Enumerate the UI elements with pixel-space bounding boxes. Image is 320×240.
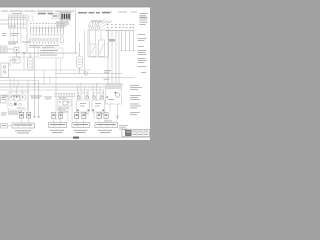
node text rows lower-left (1, 113, 7, 116)
switch S1 inner box (90, 44, 96, 57)
door module A2 box (92, 95, 105, 112)
wire K1 fan (90, 19, 112, 29)
node top-label-row (1, 11, 137, 13)
wire E3 to X6 (8, 125, 13, 127)
connector X1 small box (52, 14, 59, 19)
relay K7 small box b (59, 113, 63, 119)
wire F1 down a (9, 28, 11, 41)
node junction J1 (23, 52, 25, 54)
wire fusebox-down (26, 28, 28, 53)
door module A3 box (106, 89, 122, 105)
lamp H3 circle (19, 103, 22, 106)
switch S7 cell c (21, 95, 26, 100)
node braid hatch (106, 84, 124, 88)
lamp H2 circle (10, 103, 13, 106)
wire h73 (55, 73, 122, 75)
relay K10 small box a (97, 113, 101, 119)
relay K8 small box a (75, 113, 79, 119)
wire X8 stubs (77, 119, 84, 123)
wire v44 upper (43, 44, 45, 53)
wire v34 upper (33, 44, 35, 53)
wire v84 (84, 30, 86, 74)
node F1 label (12, 12, 22, 15)
node A3 stub labels (30, 23, 65, 24)
node 30-51 label (109, 39, 115, 42)
wire h80 (0, 79, 39, 81)
connector X7 wide box (49, 123, 67, 128)
connector X10 stub box (29, 16, 34, 21)
wire K3 drops (56, 97, 72, 121)
wire h57 (9, 56, 39, 58)
wire A1 feeds (78, 84, 89, 119)
connector X9 wide box (95, 123, 118, 128)
wire S3 down (16, 53, 18, 58)
ground G3 (38, 116, 40, 117)
node module wire labels (77, 93, 105, 115)
fuse F3 capsule (28, 53, 34, 70)
node F2 labels (29, 45, 59, 51)
node bottom marker (73, 137, 79, 139)
wire h70 (9, 69, 91, 71)
node table under X2 (56, 22, 69, 27)
fuse box F1 (9, 15, 28, 28)
fuse row F2 symbols (30, 38, 58, 42)
relay K1 coil circles (88, 22, 99, 29)
relay K5 small box b (27, 113, 31, 119)
node K3 caption (57, 108, 69, 113)
ground G1 (116, 116, 119, 119)
switch S6 cell b (15, 95, 20, 101)
terminal strip X5 (54, 94, 75, 97)
wire v60 (60, 58, 62, 74)
relay K1 box (88, 30, 109, 57)
wire E1 to S3 (7, 48, 14, 50)
node left labels mid (8, 42, 30, 45)
node K2 caption (8, 112, 22, 115)
wire v38 (38, 80, 40, 117)
wire bus y87 (0, 86, 122, 88)
wire h77 (0, 76, 135, 78)
node bus junction dots (11, 84, 109, 88)
wire bus A3b (30, 34, 64, 36)
wire left verticals to buses (10, 58, 56, 94)
wire X7 stubs (54, 119, 61, 123)
node mid-right wire labels (104, 70, 112, 80)
connector X4 diamond (84, 71, 88, 75)
node S4 contact dot (14, 59, 15, 60)
node F2 dark dots (30, 43, 58, 44)
relay K6 small box a (52, 113, 56, 119)
wire bus y90 (0, 89, 104, 91)
node margin notes lower right (130, 85, 142, 115)
node left text row y95 (2, 96, 52, 100)
connector X3 drop row (31, 28, 64, 35)
fuse F4 capsule center (77, 42, 83, 74)
node small text left (2, 33, 7, 36)
node A7 drop ends (120, 50, 134, 52)
node group box center (38, 48, 63, 58)
wire fusebox-left-2 (0, 23, 9, 25)
lamp H1 box (1, 63, 9, 78)
node header ST31 (38, 13, 53, 15)
node X3 terminal blobs (30, 30, 64, 31)
node margin notes right (138, 34, 147, 73)
connector X8 wide box (72, 123, 90, 128)
node label box E3 (1, 124, 8, 129)
node legend table right (140, 13, 148, 25)
node X9 caption (98, 130, 112, 133)
ground G2 (34, 116, 36, 117)
switch S3 box (14, 48, 19, 53)
node F1 terminals (9, 26, 16, 28)
wire center drop (75, 10, 77, 53)
wire v34 (33, 53, 35, 117)
node text under module A3 (104, 120, 112, 123)
node X6 caption (15, 130, 31, 133)
node A7 labels (107, 24, 134, 28)
wire F1 down c (17, 28, 19, 44)
node K2 inner text (17, 107, 25, 110)
node X7 caption (50, 130, 64, 133)
switch S2 inner box (99, 40, 105, 57)
wire K4 K5 stubs (22, 110, 29, 123)
wire A7 short drops (122, 31, 134, 51)
relay K11 small box b (104, 113, 108, 119)
wire A3 up stubs (31, 25, 64, 28)
node F1 inner marks (9, 17, 25, 18)
wire fusebox-left-1 (0, 19, 9, 21)
connector X2 dark box (60, 13, 71, 21)
switch S5 cell a (9, 95, 14, 100)
node K2 dark pad (14, 103, 17, 106)
node title block (122, 130, 150, 137)
wire bus A7 (106, 30, 135, 32)
fuse F5 capsule small (60, 37, 63, 44)
wire A3 down (110, 104, 118, 120)
wire main bus y53 (0, 52, 78, 54)
node label box E1 (1, 46, 8, 52)
node X8 caption (74, 130, 88, 133)
relay K3 box (58, 98, 72, 107)
wire bus A3 (30, 27, 64, 29)
wire F1 down d (20, 28, 22, 44)
wire F1 down b (13, 28, 15, 44)
node label box E2 (1, 95, 7, 103)
node header BR140 (78, 12, 110, 13)
relay K2 box (8, 92, 28, 110)
wire X9 stubs (99, 119, 106, 123)
connector X6 wide box (12, 123, 35, 128)
relay K9 small box b (82, 113, 86, 119)
node text above title block (119, 125, 128, 129)
wire K2 feeds (11, 87, 29, 110)
switch S4 cluster (10, 57, 20, 66)
node F1 under-text (11, 33, 20, 36)
wire A7 long drops (108, 31, 119, 85)
wire v24 (23, 53, 25, 70)
wire bus y84 (0, 83, 122, 85)
node K1 label (91, 21, 102, 22)
relay K4 small box a (20, 113, 24, 119)
door module A1 box (77, 95, 90, 112)
wire page bottom rule (0, 137, 150, 139)
wire X2 drop (61, 20, 63, 28)
wire K1 internals (90, 27, 102, 44)
wire A2 feeds (93, 84, 104, 119)
